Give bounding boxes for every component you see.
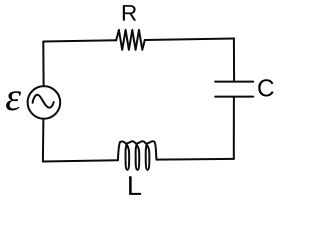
wire bottom-left: [43, 160, 118, 161]
label L: [129, 176, 141, 195]
wire left-lower: [42, 119, 45, 162]
AC source sine wave: [33, 95, 54, 108]
wire left-upper: [42, 42, 44, 86]
resistor R1: [116, 30, 145, 50]
capacitor C1 bottom plate: [215, 96, 253, 98]
label C: [258, 79, 273, 96]
inductor L1: [118, 141, 156, 170]
AC source circle: [28, 86, 61, 119]
wire bottom-right: [156, 158, 233, 161]
wire right-upper: [233, 38, 235, 80]
label R: [123, 5, 136, 21]
wire right-lower: [233, 98, 235, 159]
label epsilon (EMF): [6, 91, 21, 110]
wire top-right: [145, 39, 234, 41]
capacitor C1 top plate: [215, 81, 253, 83]
wire top-left: [43, 40, 116, 41]
